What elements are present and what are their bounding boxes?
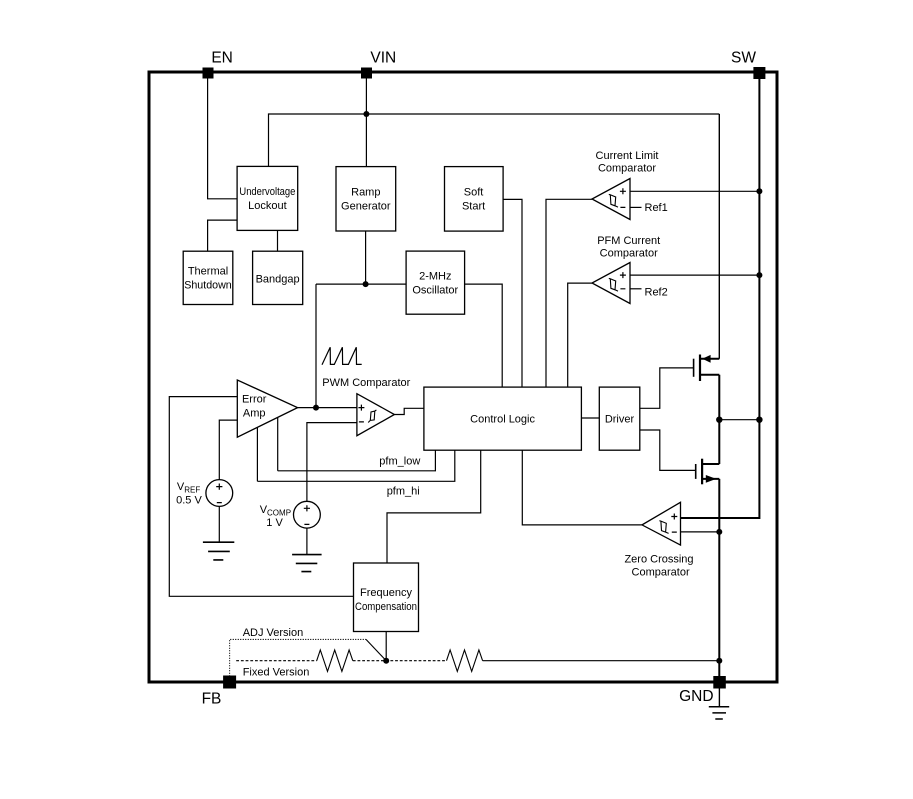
svg-text:VIN: VIN <box>370 49 396 66</box>
voltage source VCOMP <box>294 501 321 528</box>
resistor R1 <box>317 650 353 671</box>
svg-text:Zero Crossing: Zero Crossing <box>624 553 693 565</box>
pin EN pad <box>203 68 214 79</box>
block Bandgap <box>253 251 303 304</box>
power rail SW pad down to zero crossing plus input <box>681 79 760 518</box>
sawtooth ramp icon <box>322 347 362 365</box>
wire Driver to high-side gate <box>640 368 694 408</box>
block Ramp Generator <box>336 167 396 231</box>
svg-text:Compensation: Compensation <box>355 601 417 613</box>
block Thermal Shutdown <box>183 251 233 304</box>
wire Control Logic to Driver <box>581 417 599 419</box>
svg-text:Ref2: Ref2 <box>645 286 668 298</box>
wire pfm_hi to Control Logic <box>257 450 454 481</box>
pin VIN pad <box>361 68 372 79</box>
transistor Q2 low-side NMOS <box>696 459 720 485</box>
svg-text:FB: FB <box>202 690 222 707</box>
svg-text:Shutdown: Shutdown <box>184 279 232 291</box>
op-amp Error Amp <box>237 380 297 437</box>
svg-text:PWM Comparator: PWM Comparator <box>322 377 410 389</box>
wire oscillator output to Control Logic <box>465 284 503 387</box>
wire ADJ diagonal into node <box>366 639 386 660</box>
wire pfm_low drop from Error Amp <box>277 417 279 470</box>
svg-text:Oscillator: Oscillator <box>412 285 458 297</box>
wire oscillator rail left <box>316 283 406 285</box>
junction node zero crossing minus <box>716 529 722 535</box>
wire VIN to Ramp Generator <box>365 78 367 167</box>
wire Soft Start output to Control Logic <box>503 199 522 387</box>
wire PFM Current Comparator plus input from SW <box>630 274 759 276</box>
wire Frequency Compensation down to node <box>385 632 387 661</box>
svg-text:GND: GND <box>679 688 713 705</box>
svg-text:ADJ Version: ADJ Version <box>243 627 304 639</box>
junction node GND line <box>716 658 722 664</box>
junction node SW at PFM comparator <box>756 272 762 278</box>
svg-text:Undervoltage: Undervoltage <box>239 186 295 198</box>
svg-text:Frequency: Frequency <box>360 587 412 599</box>
wire EN to Undervoltage Lockout <box>208 78 238 199</box>
block 2-MHz Oscillator <box>406 251 465 314</box>
power rail low-side FET to GND pad <box>718 479 720 676</box>
wire Driver to low-side gate <box>640 430 696 470</box>
junction node ramp/oscillator <box>363 281 369 287</box>
svg-text:Comparator: Comparator <box>632 567 690 579</box>
svg-text:EN: EN <box>211 49 233 66</box>
svg-text:Driver: Driver <box>605 414 635 426</box>
wire SW node link to SW rail <box>719 419 759 421</box>
wire VCOMP to PWM Comparator minus <box>307 423 357 502</box>
svg-text:Lockout: Lockout <box>248 200 287 212</box>
block Control Logic <box>424 387 582 450</box>
wire R2 to GND node <box>483 660 720 662</box>
svg-text:0.5 V: 0.5 V <box>176 494 202 506</box>
block Undervoltage Lockout <box>237 166 298 230</box>
svg-text:2-MHz: 2-MHz <box>419 271 451 283</box>
wire dotted ADJ version from FB <box>230 639 366 676</box>
plus minus PFM comparator <box>620 272 626 289</box>
hysteresis glyph PWM comparator <box>368 410 376 423</box>
wire Error Amp output to PWM Comparator plus <box>298 407 357 409</box>
junction node SW at current limit <box>756 188 762 194</box>
junction node VIN rail <box>363 111 369 117</box>
plus minus PWM comparator <box>358 405 364 422</box>
wire Undervoltage Lockout to Bandgap <box>277 230 279 251</box>
svg-text:Fixed Version: Fixed Version <box>243 667 310 679</box>
pin SW pad <box>753 67 765 79</box>
hysteresis glyph Current Limit comparator <box>609 194 618 207</box>
plus minus VREF <box>216 484 222 503</box>
transistor Q1 high-side PMOS <box>694 355 720 382</box>
block Frequency Compensation <box>354 563 419 632</box>
wire SW node between FETs <box>718 375 720 464</box>
wire PFM Current Comparator output to Control Logic <box>568 283 592 387</box>
wire PFM Current Comparator minus input Ref2 <box>630 288 642 290</box>
svg-text:Error: Error <box>242 393 267 405</box>
wire VREF to ground <box>218 507 220 543</box>
svg-text:Ref1: Ref1 <box>645 202 668 214</box>
svg-text:PFM Current: PFM Current <box>597 235 660 247</box>
wire pfm_low to Control Logic <box>278 450 436 471</box>
svg-text:Comparator: Comparator <box>600 248 658 260</box>
svg-text:Start: Start <box>462 200 485 212</box>
comparator PWM <box>357 394 395 436</box>
wire dashed between R1 and R2 <box>353 660 447 662</box>
plus minus Zero Crossing comparator <box>671 514 677 533</box>
wire Zero Crossing Comparator output to Control Logic <box>522 450 642 525</box>
wire Current Limit Comparator output to Control Logic <box>546 199 592 387</box>
comparator Zero Crossing <box>642 502 681 545</box>
svg-text:Soft: Soft <box>464 186 484 198</box>
wire GND pad to ground symbol <box>718 689 720 707</box>
wire Current Limit Comparator plus input from SW <box>630 190 759 192</box>
voltage source VREF <box>206 480 233 507</box>
wire Zero Crossing Comparator minus input <box>681 531 720 533</box>
wire VREF to Error Amp lower input <box>219 420 237 480</box>
svg-text:Amp: Amp <box>243 407 266 419</box>
wire Current Limit Comparator minus input Ref1 <box>630 206 642 208</box>
svg-text:Comparator: Comparator <box>598 163 656 175</box>
wire ramp to PWM node <box>315 284 317 408</box>
wire VCOMP to ground <box>306 528 308 555</box>
svg-text:Control Logic: Control Logic <box>470 414 535 426</box>
pin FB pad <box>223 676 236 689</box>
svg-text:Generator: Generator <box>341 200 391 212</box>
junction node switch node right <box>756 417 762 423</box>
plus minus VCOMP <box>304 505 310 524</box>
svg-text:1 V: 1 V <box>266 517 283 529</box>
wire VIN top rail <box>269 114 720 166</box>
chip outline border <box>149 72 777 682</box>
svg-text:Current Limit: Current Limit <box>596 150 659 162</box>
pin GND pad <box>713 676 726 689</box>
junction node switch node left <box>716 417 722 423</box>
svg-text:pfm_low: pfm_low <box>379 455 420 467</box>
wire PWM Comparator output to Control Logic <box>394 408 424 414</box>
wire pfm_hi drop from Error Amp <box>256 427 258 481</box>
ground VCOMP <box>292 555 322 572</box>
hysteresis glyph PFM comparator <box>609 278 618 291</box>
resistor R2 <box>447 650 483 671</box>
comparator PFM Current <box>592 263 630 304</box>
hysteresis glyph Zero Crossing comparator <box>659 521 668 534</box>
wire feedback from Error Amp upper input to Frequency Compensation <box>169 397 353 597</box>
comparator Current Limit <box>592 179 630 220</box>
junction node error amp output <box>313 405 319 411</box>
ground GND pin <box>709 707 729 719</box>
block Soft Start <box>445 167 504 232</box>
power rail VIN to high-side FET <box>718 114 720 359</box>
block Driver <box>599 387 640 450</box>
wire Control Logic to Frequency Compensation <box>387 450 481 563</box>
svg-text:pfm_hi: pfm_hi <box>387 486 420 498</box>
wire Ramp Generator down <box>365 231 367 284</box>
svg-text:SW: SW <box>731 49 756 66</box>
svg-text:Ramp: Ramp <box>351 186 380 198</box>
junction node feedback divider <box>383 658 389 664</box>
wire Undervoltage Lockout to Thermal Shutdown <box>208 220 238 251</box>
plus minus Current Limit comparator <box>620 188 626 207</box>
ground VREF <box>203 542 234 560</box>
svg-text:Thermal: Thermal <box>188 265 228 277</box>
svg-text:Bandgap: Bandgap <box>256 273 300 285</box>
wire dashed fixed version FB to R1 <box>236 660 317 662</box>
